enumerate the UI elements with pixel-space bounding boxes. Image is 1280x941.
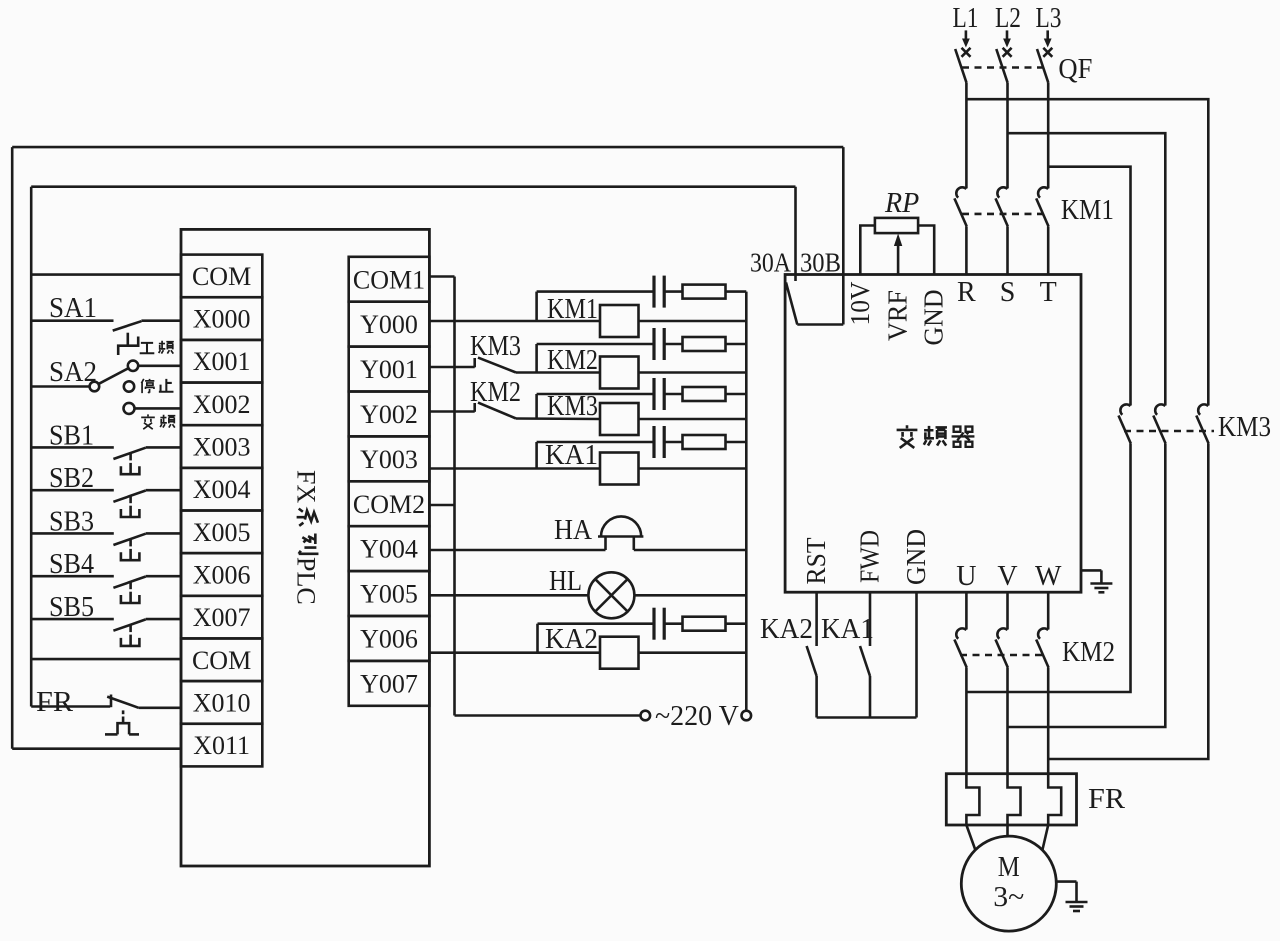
pin label W	[1035, 561, 1062, 592]
svg-text:30A: 30A	[750, 248, 791, 278]
contactor contact hook	[1198, 404, 1208, 414]
svg-text:X006: X006	[193, 560, 251, 589]
ground symbol at inverter	[1081, 570, 1112, 592]
svg-text:KA2: KA2	[545, 624, 598, 655]
svg-text:PLC: PLC	[292, 557, 321, 605]
PLC input terminal cell X003	[181, 425, 262, 468]
contactor contact blade	[1153, 416, 1165, 444]
pushbutton SB1 (wire row and contact)	[31, 447, 181, 474]
wire: V terminal drop to KM2	[1006, 592, 1009, 629]
wire: bypass branch from L1 junction to right side	[966, 99, 1208, 405]
contactor coil KM1	[600, 305, 639, 337]
pin label RST	[801, 537, 831, 584]
pin label FWD	[855, 530, 885, 583]
svg-text:FR: FR	[36, 687, 73, 718]
wire: RP right lead to GND	[918, 226, 934, 275]
label KM2 (main contacts)	[1062, 637, 1115, 668]
lamp HL	[588, 572, 634, 618]
circuit breaker QF linkage (dashed)	[962, 66, 1044, 69]
svg-text:KA1: KA1	[821, 614, 874, 645]
wire: X000 row right segment	[141, 319, 181, 322]
svg-text:Y000: Y000	[360, 310, 418, 339]
wire: resistor to right bus	[726, 441, 747, 444]
svg-text:RST: RST	[801, 537, 831, 584]
wire: V line KM2 to FR	[1006, 668, 1009, 774]
wire: snubber branch left connector	[536, 624, 539, 653]
contactor linkage (dashed)	[1124, 430, 1214, 433]
wire: inner common bus top run y=187 to 30A	[31, 185, 795, 188]
wire: KM3 pole2 down to V junction	[1008, 444, 1166, 728]
circuit breaker QF pole 2 x-mark	[1003, 48, 1012, 57]
pushbutton SB3 (wire row and contact)	[31, 533, 181, 560]
wire: snubber branch to capacitor	[537, 441, 654, 444]
svg-text:COM2: COM2	[353, 490, 425, 519]
switch SA2 pivot contact circle	[90, 382, 100, 392]
PLC input terminal cell X002	[181, 383, 262, 426]
wire: R into inverter	[965, 226, 968, 274]
contactor contact blade	[996, 198, 1008, 226]
wire: Y002 rung middle	[516, 417, 600, 420]
svg-text:X002: X002	[193, 390, 251, 419]
contactor contact hook	[956, 628, 966, 638]
PLC output terminal cell Y000	[349, 302, 430, 347]
fault relay contact 30A-30B inside inverter	[786, 283, 843, 325]
label SB5	[49, 592, 94, 623]
wire: FR to motor lead V	[1006, 825, 1009, 836]
PLC output terminal cell Y002	[349, 392, 430, 437]
PLC input terminal cell X000	[181, 297, 262, 340]
switch SA2 blade	[99, 368, 129, 384]
label KM2 (coil)	[547, 345, 598, 376]
svg-text:Y006: Y006	[360, 624, 418, 653]
inverter (bianpinqi) box	[785, 275, 1081, 593]
RC snubber for KM2 coil	[537, 328, 747, 373]
svg-text:X010: X010	[193, 688, 251, 717]
svg-text:KA2: KA2	[760, 614, 813, 645]
wire: inner common bus left vertical x=31	[30, 187, 33, 707]
contactor KM1 main contacts	[954, 187, 1048, 226]
wire: capacitor to resistor	[664, 343, 682, 346]
wire: Y000 rung right	[639, 320, 747, 323]
svg-text:VRF: VRF	[883, 290, 913, 341]
svg-text:COM: COM	[192, 262, 251, 291]
horn HA (bell symbol)	[598, 516, 643, 550]
svg-text:Y007: Y007	[360, 669, 418, 698]
svg-text:KA1: KA1	[545, 440, 598, 471]
circuit breaker QF pole 1 blade	[955, 49, 966, 82]
wire: FR to motor lead U	[966, 825, 975, 850]
PLC output terminal cell Y004	[349, 526, 430, 571]
wire: outer loop bottom run to X011	[12, 747, 182, 750]
label KM2 (interlock contact)	[470, 377, 521, 408]
wire: GND terminal drop	[915, 592, 918, 717]
wire: outer loop left vertical x=12	[11, 147, 14, 749]
PLC output terminal cell COM1	[349, 257, 430, 302]
capacitor snubber plates	[652, 426, 655, 458]
label KM1 (main contacts)	[1061, 195, 1114, 226]
wire: Y002 rung right	[639, 418, 747, 421]
svg-text:KM2: KM2	[547, 345, 598, 376]
svg-text:KM3: KM3	[1218, 412, 1271, 443]
svg-text:L2: L2	[995, 3, 1021, 34]
wire: W line KM2 to FR	[1047, 668, 1050, 774]
wire: T into inverter	[1047, 226, 1050, 274]
switch SA1 blade	[113, 321, 142, 330]
wire: FR to motor lead W	[1042, 825, 1048, 850]
svg-text:Y002: Y002	[360, 400, 418, 429]
circuit breaker QF pole 3 blade	[1037, 49, 1048, 82]
wire: bypass branch from L2 junction	[1008, 133, 1166, 405]
wire: Y006 rung right	[639, 651, 747, 654]
svg-text:Y005: Y005	[360, 580, 418, 609]
pin label VRF	[883, 290, 913, 341]
PLC input terminal cell X006	[181, 553, 262, 596]
capacitor snubber plates	[652, 276, 655, 308]
label KM1 (coil)	[547, 294, 598, 325]
wire: resistor to right bus	[726, 343, 747, 346]
label SB4	[49, 549, 94, 580]
contact KM2 interlock on Y002 rung	[475, 403, 516, 419]
wire: X002 row from SA2 bottom contact	[135, 407, 182, 410]
resistor snubber	[683, 435, 726, 449]
svg-text:COM: COM	[192, 646, 251, 675]
label HL	[549, 566, 582, 597]
resistor snubber	[683, 337, 726, 351]
pin label S	[1000, 277, 1016, 308]
wire: RP left lead to 10V	[860, 226, 875, 275]
PLC main box FX series	[181, 229, 429, 866]
circuit breaker QF pole 1 x-mark	[962, 48, 971, 57]
PLC input terminal cell X004	[181, 468, 262, 511]
wire: KA1 contact to common	[869, 676, 872, 718]
wire: COM2 stub to 220V bus	[429, 504, 454, 507]
resistor snubber	[683, 285, 726, 299]
wire: Y002 rung left	[429, 410, 474, 413]
svg-text:X005: X005	[193, 518, 251, 547]
svg-text:R: R	[957, 277, 976, 308]
svg-text:X001: X001	[193, 347, 251, 376]
circuit breaker QF pole 3 x-mark	[1043, 48, 1052, 57]
PLC input terminal cell COM (upper)	[181, 255, 262, 298]
wire: snubber branch left connector	[535, 344, 538, 373]
PLC input terminal cell X007	[181, 596, 262, 639]
wire: 30A drop x=795	[794, 187, 797, 281]
wire: bypass branch from L3 junction	[1048, 167, 1130, 406]
wire: phase R vertical QF to KM1	[965, 82, 968, 188]
relay coil KA2	[600, 637, 639, 669]
label tingzhi (stop)	[141, 379, 173, 393]
wire: control common bus under inverter	[817, 716, 917, 719]
wire: Y000 rung left	[429, 320, 600, 323]
svg-text:Y003: Y003	[360, 445, 418, 474]
wire: resistor to right bus	[726, 622, 747, 625]
node L2	[995, 3, 1021, 34]
wire: phase T vertical QF to KM1	[1047, 82, 1050, 188]
pin label R	[957, 277, 976, 308]
label KM3 (bypass contacts)	[1218, 412, 1271, 443]
wire: KM3 pole1 down to U junction	[966, 444, 1130, 693]
label KA1 (coil)	[545, 440, 598, 471]
node L1	[953, 3, 979, 34]
contactor contact blade	[996, 640, 1008, 668]
label FR (overload relay)	[1088, 784, 1125, 815]
pin label GND (bottom)	[901, 529, 931, 585]
svg-text:Y001: Y001	[360, 355, 418, 384]
pin label V	[997, 561, 1017, 592]
wire: Y001 rung right	[639, 371, 747, 374]
RC snubber for KM1 coil	[537, 276, 747, 321]
wire: RST terminal drop	[815, 592, 818, 646]
svg-text:HL: HL	[549, 566, 582, 597]
contactor linkage (dashed)	[960, 654, 1046, 657]
RC snubber for KM3 coil	[537, 378, 747, 419]
wire: snubber branch left connector	[535, 292, 538, 321]
wire: snubber branch to capacitor	[537, 393, 654, 396]
label KA2 (contact)	[760, 614, 813, 645]
thermal overload FR heater element phase 1	[966, 774, 979, 825]
svg-text:W: W	[1035, 561, 1062, 592]
node L3	[1036, 3, 1062, 34]
PLC input terminal cell X011	[181, 724, 262, 767]
svg-text:10V: 10V	[845, 281, 875, 325]
label HA	[554, 515, 593, 546]
wire: snubber branch left connector	[535, 442, 538, 469]
capacitor snubber plates	[652, 328, 655, 360]
wire: L1 incoming drop with arrow	[962, 30, 970, 47]
pushbutton SB2 (wire row and contact)	[31, 490, 181, 517]
wire: Y005 rung left	[429, 594, 588, 597]
wire: capacitor to resistor	[664, 441, 682, 444]
wire: right 220V bus x=746.3	[745, 292, 748, 711]
resistor snubber	[683, 387, 726, 401]
label KA2 (coil)	[545, 624, 598, 655]
svg-text:U: U	[956, 561, 976, 592]
wire: snubber branch to capacitor	[537, 290, 654, 293]
label RP	[884, 188, 919, 219]
PLC output terminal cell Y001	[349, 347, 430, 392]
label 30B	[800, 248, 841, 278]
thermal overload relay FR box	[946, 774, 1076, 825]
wire: U line KM2 to FR	[965, 668, 968, 774]
wire: Y006 rung left	[429, 651, 600, 654]
label SB1	[49, 420, 94, 451]
label FR (input contact)	[36, 687, 73, 718]
svg-text:X003: X003	[193, 433, 251, 462]
wire: Y001 rung middle	[516, 371, 600, 374]
svg-text:COM1: COM1	[353, 265, 425, 294]
label SB2	[49, 463, 94, 494]
contactor contact hook	[997, 628, 1007, 638]
svg-text:X011: X011	[193, 731, 250, 760]
PLC input terminal cell X005	[181, 511, 262, 554]
potentiometer RP body	[875, 218, 918, 233]
wire: RP wiper arrow to VRF	[894, 234, 902, 275]
wire: X000 row left segment	[31, 319, 113, 322]
contactor contact blade	[1036, 198, 1048, 226]
wire: W terminal drop to KM2	[1047, 592, 1050, 629]
svg-text:RP: RP	[884, 188, 919, 219]
wire: resistor to right bus	[726, 393, 747, 396]
node: 220V left terminal	[641, 711, 651, 721]
svg-text:KM2: KM2	[1062, 637, 1115, 668]
PLC input terminal cell COM (lower)	[181, 638, 262, 681]
svg-text:Y004: Y004	[360, 535, 418, 564]
pin label T	[1040, 277, 1057, 308]
svg-text:30B: 30B	[800, 248, 841, 278]
svg-text:FWD: FWD	[855, 530, 885, 583]
wire: outer loop X011-to-30B (top run y=147)	[12, 146, 843, 149]
wire: Y003 rung left	[429, 467, 600, 470]
wire: capacitor to resistor	[664, 290, 682, 293]
contactor contact blade	[954, 198, 966, 226]
label: FX xilie PLC (vertical)	[292, 470, 321, 605]
relay contact KA2 on RST line	[807, 646, 817, 676]
switch SA1-SA2 mechanical link	[118, 333, 138, 355]
label gongpin (line-frequency)	[140, 341, 174, 354]
wire: Y003 rung right	[639, 467, 747, 470]
node: 220V right terminal	[742, 711, 752, 721]
contactor coil KM2	[600, 357, 639, 389]
svg-text:GND: GND	[901, 529, 931, 585]
relay contact KA1 on FWD line	[860, 646, 870, 676]
svg-text:X007: X007	[193, 603, 251, 632]
label bianpinqi (inverter)	[897, 425, 975, 448]
contactor KM3 bypass contacts	[1119, 404, 1215, 443]
wire: Y004 rung left	[429, 549, 605, 552]
label SB3	[49, 506, 94, 537]
motor M 3-phase	[961, 836, 1056, 931]
svg-text:QF: QF	[1058, 54, 1092, 85]
switch SA2 position contact bianpin (bottom)	[124, 403, 135, 414]
svg-text:SA1: SA1	[49, 293, 97, 324]
svg-text:KM2: KM2	[470, 377, 521, 408]
contactor KM2 main contacts	[954, 628, 1048, 667]
thermal overload FR heater element phase 3	[1048, 774, 1061, 825]
contactor contact blade	[954, 640, 966, 668]
wire: KM3 pole3 down to W junction	[1048, 444, 1208, 760]
wire: COM upper row	[31, 273, 181, 276]
wire: S into inverter	[1006, 226, 1009, 274]
wire: SA2 row from bus	[31, 385, 89, 388]
PLC output terminal cell COM2	[349, 481, 430, 526]
capacitor snubber plates	[652, 608, 655, 640]
contactor contact hook	[1120, 404, 1130, 414]
contactor linkage (dashed)	[962, 213, 1044, 216]
svg-text:T: T	[1040, 277, 1057, 308]
label 30A	[750, 248, 791, 278]
thermal overload FR heater element phase 2	[1008, 774, 1021, 825]
contactor contact blade	[1119, 416, 1131, 444]
svg-text:KM3: KM3	[547, 391, 598, 422]
wire: X001 row from SA2 top contact	[138, 364, 181, 367]
wire: COM1 stub to 220V bus	[429, 275, 454, 278]
contactor contact hook	[1155, 404, 1165, 414]
PLC output terminal cell Y007	[349, 661, 430, 706]
wire: Y005 rung right	[634, 594, 746, 597]
wire: KA2 contact to common	[815, 676, 818, 718]
wire: Y004 rung right	[634, 549, 747, 552]
svg-text:L3: L3	[1036, 3, 1062, 34]
svg-text:GND: GND	[919, 290, 949, 346]
pushbutton SB5 (wire row and contact)	[31, 619, 181, 646]
PLC input terminal cell X010	[181, 681, 262, 724]
PLC input terminal cell X001	[181, 340, 262, 383]
wire: capacitor to resistor	[664, 393, 682, 396]
svg-text:X000: X000	[193, 305, 251, 334]
RC snubber for KA2 coil	[538, 608, 747, 653]
relay coil KA1	[600, 453, 639, 485]
pin label 10V	[845, 281, 875, 325]
contactor contact blade	[1196, 416, 1208, 444]
capacitor snubber plates	[652, 378, 655, 410]
RC snubber for KA1 coil	[537, 426, 747, 469]
pushbutton SB4 (wire row and contact)	[31, 576, 181, 603]
pin label U	[956, 561, 976, 592]
svg-text:FX: FX	[292, 470, 321, 503]
svg-text:KM1: KM1	[547, 294, 598, 325]
wire: COM lower row	[31, 658, 181, 661]
wire: FWD terminal drop	[869, 592, 872, 646]
svg-text:X004: X004	[193, 475, 251, 504]
wire: U terminal drop to KM2	[965, 592, 968, 629]
svg-text:HA: HA	[554, 515, 593, 546]
wire: snubber branch left connector	[535, 394, 538, 419]
wire: 220V line from left bus	[455, 714, 641, 717]
wire: L3 incoming drop with arrow	[1044, 30, 1052, 47]
contactor contact blade	[1036, 640, 1048, 668]
switch SA2 position contact stop (middle)	[124, 381, 134, 391]
PLC output terminal cell Y003	[349, 436, 430, 481]
label KM3 (interlock contact)	[470, 331, 521, 362]
contact KM3 interlock on Y001 rung	[475, 358, 516, 373]
label QF	[1058, 54, 1092, 85]
label SA2	[49, 357, 97, 388]
label ~220 V	[655, 701, 739, 732]
svg-text:M: M	[998, 851, 1020, 883]
pin label GND (top)	[919, 290, 949, 346]
wire: left 220V bus x=454.5	[453, 277, 456, 716]
wire: Y001 rung left	[429, 366, 474, 369]
switch SA2 position contact gongpin (top)	[128, 361, 138, 371]
PLC output terminal cell Y005	[349, 571, 430, 616]
label SA1	[49, 293, 97, 324]
wire: resistor to right bus	[726, 290, 747, 293]
svg-text:V: V	[997, 561, 1017, 592]
contactor contact hook	[997, 187, 1007, 197]
wire: snubber branch to capacitor	[537, 343, 654, 346]
PLC output terminal cell Y006	[349, 616, 430, 661]
svg-text:~220 V: ~220 V	[655, 701, 739, 732]
wire: snubber branch to capacitor	[538, 622, 655, 625]
thermal relay FR contact	[31, 695, 181, 735]
contactor coil KM3	[600, 403, 639, 435]
circuit breaker QF pole 2 blade	[996, 49, 1007, 82]
wire: capacitor to resistor	[664, 622, 682, 625]
svg-text:FR: FR	[1088, 784, 1125, 815]
svg-text:KM3: KM3	[470, 331, 521, 362]
svg-text:S: S	[1000, 277, 1016, 308]
svg-text:KM1: KM1	[1061, 195, 1114, 226]
resistor snubber	[683, 617, 726, 631]
ground symbol at motor	[1056, 882, 1087, 911]
contactor contact hook	[1038, 187, 1048, 197]
wire: outer loop right drop x=843 to 30B	[842, 147, 845, 324]
contactor contact hook	[956, 187, 966, 197]
contactor contact hook	[1038, 628, 1048, 638]
wire: L2 incoming drop with arrow	[1003, 30, 1011, 47]
label bianpin (variable-frequency)	[141, 414, 175, 429]
svg-text:L1: L1	[953, 3, 979, 34]
